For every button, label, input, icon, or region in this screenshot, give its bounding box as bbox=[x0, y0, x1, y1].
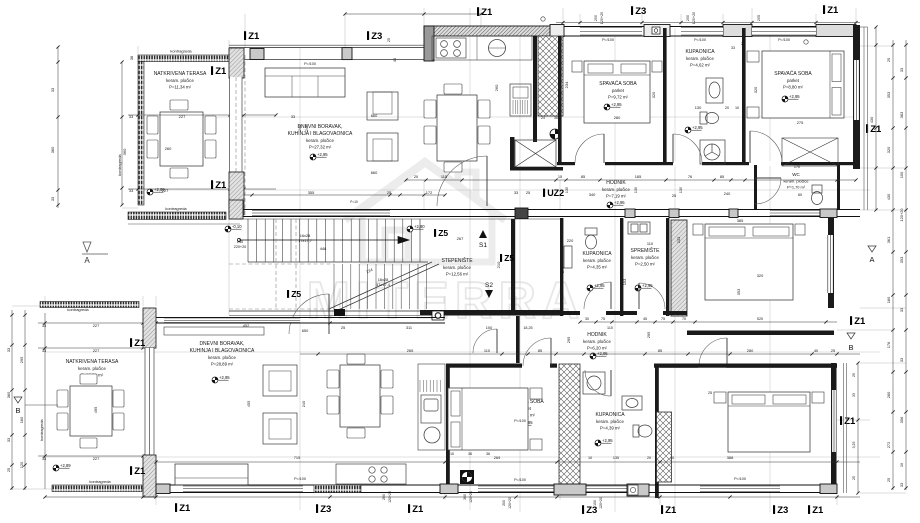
svg-text:311: 311 bbox=[406, 325, 412, 330]
entry door arc building bbox=[289, 294, 329, 334]
bed bedroom3 bbox=[448, 388, 528, 450]
marker Z3 bottom b bbox=[582, 505, 597, 516]
svg-text:115: 115 bbox=[441, 174, 447, 179]
shaft below kitchen bbox=[515, 140, 556, 167]
svg-text:306: 306 bbox=[899, 417, 904, 424]
window bedroom4 east bbox=[832, 390, 836, 452]
S2 marker bbox=[485, 282, 493, 298]
hob burners bbox=[436, 38, 466, 58]
svg-text:S1: S1 bbox=[479, 242, 487, 249]
top wall outer bbox=[229, 47, 424, 49]
svg-text:keram. pločice: keram. pločice bbox=[78, 366, 106, 371]
svg-text:P=8,80 m²: P=8,80 m² bbox=[783, 84, 804, 89]
svg-text:parket: parket bbox=[787, 78, 800, 83]
svg-text:280: 280 bbox=[886, 391, 891, 398]
svg-text:SPREMIŠTE: SPREMIŠTE bbox=[631, 247, 661, 254]
terrace dim line h2 bbox=[128, 187, 276, 190]
terrace dim line v bbox=[120, 60, 123, 206]
svg-text:kontragreda: kontragreda bbox=[39, 419, 44, 441]
svg-text:MITERRA: MITERRA bbox=[307, 272, 586, 330]
svg-text:parket: parket bbox=[612, 88, 625, 93]
sofa divider1 bbox=[291, 76, 293, 97]
S1 marker bbox=[479, 230, 487, 249]
shelf under window bbox=[164, 327, 264, 335]
svg-text:A: A bbox=[869, 255, 874, 264]
nightstand b3 T bbox=[530, 388, 542, 399]
room label hodnik 2 bbox=[583, 332, 611, 350]
svg-text:Z1: Z1 bbox=[665, 505, 677, 516]
svg-text:353: 353 bbox=[886, 92, 891, 99]
svg-text:130: 130 bbox=[695, 105, 702, 110]
basin kup2 bbox=[564, 246, 572, 268]
stairs dashed west 1 bbox=[275, 219, 277, 309]
level hodnik2 bbox=[590, 351, 608, 359]
svg-text:130: 130 bbox=[679, 187, 683, 193]
svg-text:10: 10 bbox=[450, 452, 454, 456]
svg-text:85: 85 bbox=[720, 174, 724, 179]
living south dim line bbox=[244, 193, 447, 196]
marker Z1 bottom c bbox=[661, 505, 677, 516]
svg-text:KUPAONICA: KUPAONICA bbox=[595, 412, 625, 418]
right dim column lines bbox=[893, 40, 906, 490]
svg-text:P=/100: P=/100 bbox=[294, 477, 306, 481]
terrace bottom kontragreda strip bbox=[128, 212, 226, 220]
section marker Z5 c bbox=[287, 289, 301, 299]
svg-text:38: 38 bbox=[129, 56, 134, 60]
svg-text:660: 660 bbox=[371, 113, 378, 118]
svg-text:85: 85 bbox=[658, 348, 662, 353]
svg-text:388: 388 bbox=[727, 455, 734, 460]
south wall upper line2 bbox=[229, 216, 860, 218]
room label dnevni 2 bbox=[190, 341, 255, 366]
room label spremiste bbox=[631, 247, 661, 266]
svg-text:120: 120 bbox=[19, 461, 24, 468]
svg-text:25: 25 bbox=[708, 391, 712, 395]
svg-text:385: 385 bbox=[737, 218, 744, 223]
pillar b inner marks bbox=[652, 27, 660, 34]
terrace table 1 bbox=[147, 100, 216, 178]
bedroom4 north wall bbox=[660, 364, 837, 368]
svg-text:240: 240 bbox=[724, 191, 731, 196]
band south wall kup bbox=[560, 311, 687, 315]
black square marker stairs bbox=[334, 309, 345, 316]
nightstand 1281 R bbox=[795, 224, 805, 235]
pillar lower west top bbox=[143, 308, 156, 348]
level 1136 bbox=[754, 428, 772, 436]
south wall pillar b bbox=[625, 209, 635, 218]
terrace left kontragreda strip bbox=[138, 62, 144, 206]
window bedroom1281 east bbox=[828, 235, 833, 293]
svg-text:25: 25 bbox=[886, 478, 891, 482]
roof overhang lines right lower bbox=[844, 363, 847, 493]
svg-text:KUHINJA I BLAGOVAONICA: KUHINJA I BLAGOVAONICA bbox=[288, 131, 353, 137]
svg-text:DNEVNI BORAVAK,: DNEVNI BORAVAK, bbox=[297, 124, 342, 130]
fridge vent lines bbox=[513, 100, 527, 114]
svg-text:448: 448 bbox=[320, 246, 327, 251]
svg-text:715: 715 bbox=[294, 455, 301, 460]
kitchen2 sink bbox=[421, 395, 441, 423]
kitchen counter bbox=[432, 36, 532, 60]
room label spavaca 1136 bbox=[744, 405, 782, 424]
svg-text:36: 36 bbox=[554, 116, 558, 120]
stair direction arrow bbox=[237, 237, 409, 244]
svg-text:B: B bbox=[848, 343, 853, 352]
svg-text:10: 10 bbox=[588, 456, 592, 460]
svg-text:P=/100: P=/100 bbox=[514, 478, 526, 482]
svg-text:+2,95: +2,95 bbox=[602, 438, 613, 443]
top pillar b bbox=[644, 25, 670, 37]
section dashed line x245 bbox=[244, 55, 246, 215]
svg-text:100: 100 bbox=[486, 325, 493, 330]
kup3 east wall bbox=[655, 365, 659, 498]
svg-text:103: 103 bbox=[622, 279, 627, 286]
level 439 bbox=[595, 438, 613, 446]
svg-text:33: 33 bbox=[50, 197, 55, 201]
svg-text:267: 267 bbox=[457, 236, 464, 241]
bed bedroom4 bbox=[728, 392, 810, 452]
window south bedroom3 bbox=[478, 486, 554, 492]
wall bedroom1 west bbox=[558, 36, 562, 165]
svg-text:20: 20 bbox=[647, 456, 651, 460]
right lower dim line bbox=[856, 361, 859, 494]
level spavaca 1 bbox=[604, 102, 622, 110]
svg-text:70: 70 bbox=[682, 317, 686, 321]
terrace top kontragreda strip bbox=[138, 55, 230, 62]
svg-text:+2,95: +2,95 bbox=[317, 152, 328, 157]
top wall corner block bbox=[250, 49, 264, 60]
svg-text:320: 320 bbox=[886, 146, 891, 153]
svg-text:280: 280 bbox=[747, 348, 754, 353]
svg-text:3,25: 3,25 bbox=[852, 442, 856, 449]
south wall pillar c bbox=[669, 209, 679, 218]
svg-text:275: 275 bbox=[797, 120, 804, 125]
svg-text:NATKRIVENA TERASA: NATKRIVENA TERASA bbox=[66, 359, 119, 365]
top pillar d bbox=[816, 25, 856, 37]
svg-text:keram. pločice: keram. pločice bbox=[208, 355, 236, 360]
marker Z1 lower terr b bbox=[130, 466, 146, 477]
svg-text:P=1,70 m²: P=1,70 m² bbox=[787, 184, 806, 189]
hatch lower kup east bbox=[657, 412, 672, 482]
terrace2 top kontragreda bbox=[40, 302, 139, 308]
hatch shaft lower mid bbox=[559, 364, 580, 486]
armchair 2 bbox=[367, 133, 398, 161]
svg-text:Z3: Z3 bbox=[371, 31, 382, 42]
east wall upper bbox=[853, 25, 860, 169]
svg-text:135: 135 bbox=[613, 456, 619, 460]
south wall pillar uz2 bbox=[515, 208, 528, 219]
svg-text:P=12,56 m²: P=12,56 m² bbox=[446, 271, 469, 276]
svg-text:205: 205 bbox=[757, 15, 761, 21]
stairs dashed west 2 bbox=[295, 219, 297, 309]
kitchen wall vertical bbox=[533, 36, 537, 142]
svg-text:P=4,62 m²: P=4,62 m² bbox=[690, 62, 711, 67]
fridge bbox=[510, 84, 531, 116]
svg-text:320: 320 bbox=[753, 86, 758, 93]
pillar west top bbox=[229, 48, 244, 78]
door arc entry UZ2 bbox=[437, 156, 487, 206]
svg-text:B: B bbox=[15, 406, 20, 415]
stairs south wall left thin bbox=[229, 310, 420, 312]
svg-text:25: 25 bbox=[886, 58, 891, 62]
wc bath1 bbox=[700, 112, 719, 124]
marker Z3 bottom a bbox=[316, 504, 331, 515]
marker Z1 right mid bbox=[866, 124, 882, 135]
marker Z1 top right bbox=[823, 5, 839, 16]
svg-text:33: 33 bbox=[899, 483, 904, 487]
svg-text:10: 10 bbox=[670, 456, 674, 460]
svg-text:353: 353 bbox=[736, 289, 741, 296]
svg-text:KUPAONICA: KUPAONICA bbox=[685, 49, 715, 55]
terrace2 bottom kontragreda bbox=[52, 485, 142, 492]
level kup2 bbox=[587, 283, 605, 291]
svg-text:Z1: Z1 bbox=[812, 505, 824, 516]
bedroom1136 north wall bbox=[654, 364, 837, 368]
level stairs -0.10 bbox=[225, 224, 242, 232]
svg-text:430: 430 bbox=[869, 116, 874, 123]
svg-text:353: 353 bbox=[899, 257, 904, 264]
svg-text:UZ2: UZ2 bbox=[547, 188, 564, 198]
door arc living entry bbox=[473, 329, 497, 353]
wall symbol circle a bbox=[541, 17, 545, 21]
svg-text:650: 650 bbox=[302, 328, 309, 333]
door arc bath1 bbox=[673, 134, 702, 163]
svg-text:STEPENIŠTE: STEPENIŠTE bbox=[441, 257, 473, 264]
level hodnik 1 bbox=[607, 200, 625, 208]
svg-text:495: 495 bbox=[93, 407, 98, 414]
svg-text:43: 43 bbox=[393, 58, 397, 62]
svg-text:25: 25 bbox=[341, 325, 345, 330]
svg-text:25: 25 bbox=[852, 476, 856, 480]
door arc kup3 bbox=[585, 370, 611, 396]
roof overhang lines right upper bbox=[860, 27, 868, 210]
svg-text:HODNIK: HODNIK bbox=[587, 332, 607, 338]
top wall mid pillar bbox=[342, 48, 352, 60]
left ticks bbox=[10, 313, 26, 489]
nightstand b4 L bbox=[714, 392, 726, 403]
svg-text:260: 260 bbox=[165, 146, 172, 151]
level 1281 bbox=[709, 282, 727, 290]
svg-text:25: 25 bbox=[741, 42, 745, 46]
svg-text:30: 30 bbox=[585, 317, 589, 321]
svg-text:33: 33 bbox=[899, 68, 904, 72]
lower living top wall a bbox=[156, 317, 445, 319]
level sprem bbox=[635, 283, 653, 291]
door arc spremiste bbox=[639, 283, 665, 309]
svg-text:kontragreda: kontragreda bbox=[117, 154, 122, 176]
svg-text:KUHINJA I BLAGOVAONICA: KUHINJA I BLAGOVAONICA bbox=[190, 348, 255, 354]
svg-text:10: 10 bbox=[735, 106, 739, 110]
marker Z3 top bbox=[631, 6, 646, 17]
washbasin bath1 bbox=[706, 78, 723, 103]
spremiste east wall bbox=[666, 218, 669, 316]
svg-text:keram. pločice: keram. pločice bbox=[306, 138, 334, 143]
svg-text:300: 300 bbox=[463, 494, 467, 500]
svg-text:+2,90: +2,90 bbox=[414, 224, 425, 229]
marker Z3 bottom c bbox=[773, 505, 788, 516]
marker Z1 bottom a bbox=[175, 503, 191, 514]
bedroom4 east wall bbox=[831, 363, 837, 494]
south wall lower line2 bbox=[156, 492, 837, 494]
level dnevni2 bbox=[212, 375, 230, 383]
svg-text:100: 100 bbox=[593, 500, 597, 506]
nightstand b2 B bbox=[747, 107, 759, 118]
room label kupaonica 439 bbox=[595, 412, 625, 430]
window bedroom2 top bbox=[752, 28, 816, 36]
door arc kup2 bbox=[584, 282, 611, 309]
level kupaonica 1 bbox=[685, 125, 703, 133]
marker Z1 wall a bbox=[211, 66, 227, 77]
svg-text:120+20: 120+20 bbox=[388, 491, 392, 503]
svg-text:33: 33 bbox=[50, 88, 55, 92]
south pillar c bbox=[554, 484, 586, 495]
kupaonica2 west wall bbox=[560, 218, 563, 316]
level living 1 bbox=[310, 152, 328, 160]
svg-text:keram. pločice: keram. pločice bbox=[783, 179, 808, 184]
window bath1 top bbox=[681, 28, 723, 36]
window east upper bbox=[854, 60, 859, 120]
svg-text:100: 100 bbox=[899, 171, 904, 178]
south pillar e bbox=[820, 484, 837, 494]
door arc bedroom1 bbox=[575, 134, 604, 163]
svg-text:45: 45 bbox=[643, 317, 647, 321]
svg-text:+2,95: +2,95 bbox=[597, 351, 608, 356]
svg-text:200: 200 bbox=[686, 15, 690, 21]
kitchen top wall pillar L bbox=[424, 26, 434, 61]
room label spavaca 1 bbox=[599, 80, 637, 99]
nightstand b1 L bbox=[572, 61, 582, 72]
svg-text:18,25: 18,25 bbox=[523, 326, 532, 330]
svg-text:172: 172 bbox=[426, 190, 433, 195]
svg-text:60: 60 bbox=[798, 193, 802, 197]
marker Z1 right low bbox=[850, 316, 866, 327]
terrace bottom edge bbox=[128, 223, 240, 225]
svg-text:keram. pločice: keram. pločice bbox=[583, 258, 611, 263]
svg-text:P=/100: P=/100 bbox=[514, 419, 526, 423]
room label natkrivena terasa 1 bbox=[154, 71, 207, 89]
terrace2 table bbox=[57, 374, 124, 448]
terrace2 left edge bbox=[44, 313, 46, 489]
mid dim line bbox=[578, 320, 837, 323]
svg-text:160: 160 bbox=[886, 296, 891, 303]
bedroom1281 south wall bbox=[687, 331, 834, 336]
lower flight treads bbox=[334, 264, 426, 309]
svg-text:120+20: 120+20 bbox=[508, 497, 512, 509]
wc east wall bbox=[837, 165, 840, 209]
room label spavaca 2 bbox=[774, 70, 812, 89]
level marker terrace 1 bbox=[147, 187, 165, 195]
svg-text:110: 110 bbox=[647, 241, 654, 246]
room label stepeniste bbox=[441, 257, 473, 276]
svg-text:DNEVNI BORAVAK,: DNEVNI BORAVAK, bbox=[199, 341, 244, 347]
stairs east wall bbox=[511, 219, 515, 315]
svg-text:200: 200 bbox=[382, 494, 386, 500]
level terasa 2 bbox=[53, 463, 71, 471]
top wall roofline bbox=[229, 44, 424, 46]
top pillar a bbox=[550, 25, 564, 37]
nightstand b2 T bbox=[747, 51, 759, 62]
svg-text:233: 233 bbox=[676, 237, 681, 244]
svg-text:P=2,50 m²: P=2,50 m² bbox=[635, 261, 656, 266]
svg-text:24: 24 bbox=[541, 116, 545, 120]
corridor north wall bbox=[557, 162, 860, 165]
kitchen sink circle bbox=[489, 40, 506, 57]
section marker Z5 b bbox=[500, 253, 514, 263]
sink divider bbox=[488, 47, 506, 49]
shaft kitchen bbox=[538, 36, 563, 116]
lower living top wall b bbox=[156, 322, 445, 324]
svg-text:P=/100: P=/100 bbox=[602, 38, 614, 42]
svg-text:360: 360 bbox=[122, 148, 127, 155]
wall symbol circle b bbox=[804, 40, 808, 44]
stairs dashed h bbox=[229, 263, 334, 265]
window south kup3 bbox=[586, 486, 627, 492]
svg-text:25: 25 bbox=[526, 190, 530, 195]
kitchen counter divider bbox=[476, 36, 478, 60]
svg-text:455: 455 bbox=[246, 401, 251, 408]
marker Z1 lower terr a bbox=[130, 338, 146, 349]
kitchen top wall pillar R bbox=[552, 26, 563, 36]
bedroom3 north wall bbox=[446, 364, 557, 368]
top wall inner line bbox=[244, 59, 424, 61]
level stairs +2.90 bbox=[407, 224, 425, 232]
south wall lower line1 bbox=[156, 484, 837, 486]
svg-text:33: 33 bbox=[6, 348, 11, 352]
top dim line left bbox=[343, 12, 482, 15]
svg-text:210: 210 bbox=[496, 261, 501, 268]
svg-text:P=27,32 m²: P=27,32 m² bbox=[309, 144, 332, 149]
svg-text:85: 85 bbox=[581, 174, 585, 179]
washing machine kup3 bbox=[583, 372, 605, 394]
svg-text:120+20: 120+20 bbox=[469, 491, 473, 503]
right inner dim line upper bbox=[874, 25, 877, 211]
window south living bbox=[252, 211, 390, 216]
svg-text:P=10: P=10 bbox=[350, 200, 358, 204]
svg-text:36: 36 bbox=[486, 452, 490, 456]
nightstand b3 B bbox=[530, 439, 542, 450]
svg-text:430: 430 bbox=[886, 193, 891, 200]
marker Z1 bottom b bbox=[408, 504, 424, 515]
svg-text:120+20: 120+20 bbox=[599, 497, 603, 509]
door arc wc bbox=[755, 178, 781, 204]
svg-text:keram. pločice: keram. pločice bbox=[583, 339, 611, 344]
svg-text:P=/100: P=/100 bbox=[734, 477, 746, 481]
stairs top line bbox=[229, 218, 560, 220]
svg-text:260: 260 bbox=[494, 84, 499, 91]
svg-text:33: 33 bbox=[514, 190, 518, 195]
svg-text:220+20: 220+20 bbox=[234, 245, 246, 249]
svg-text:P=6,20 m²: P=6,20 m² bbox=[587, 345, 608, 350]
svg-text:P=/100: P=/100 bbox=[778, 38, 790, 42]
south wall hatch segment bbox=[314, 485, 361, 493]
svg-text:Z1: Z1 bbox=[179, 503, 191, 514]
pillar west bottom bbox=[229, 172, 244, 215]
window south bedroom4 bbox=[700, 486, 780, 492]
svg-text:160: 160 bbox=[19, 416, 24, 423]
marker Z1 right bed4 bbox=[840, 416, 856, 427]
svg-text:Z1: Z1 bbox=[215, 66, 227, 77]
stairs south wall left thin2 bbox=[229, 315, 420, 317]
marker Z1 upper left bbox=[244, 31, 260, 42]
svg-text:+2,95: +2,95 bbox=[692, 125, 703, 130]
kitchen top wall bbox=[424, 26, 563, 36]
wc west wall bbox=[754, 165, 757, 209]
svg-text:Z1: Z1 bbox=[481, 7, 493, 18]
xbox thick south bbox=[510, 167, 563, 171]
shower bath1 bbox=[700, 140, 725, 164]
svg-text:keram. pločice: keram. pločice bbox=[602, 187, 630, 192]
terrace dim line h1 bbox=[128, 113, 278, 116]
bed bedroom1 bbox=[584, 61, 650, 123]
